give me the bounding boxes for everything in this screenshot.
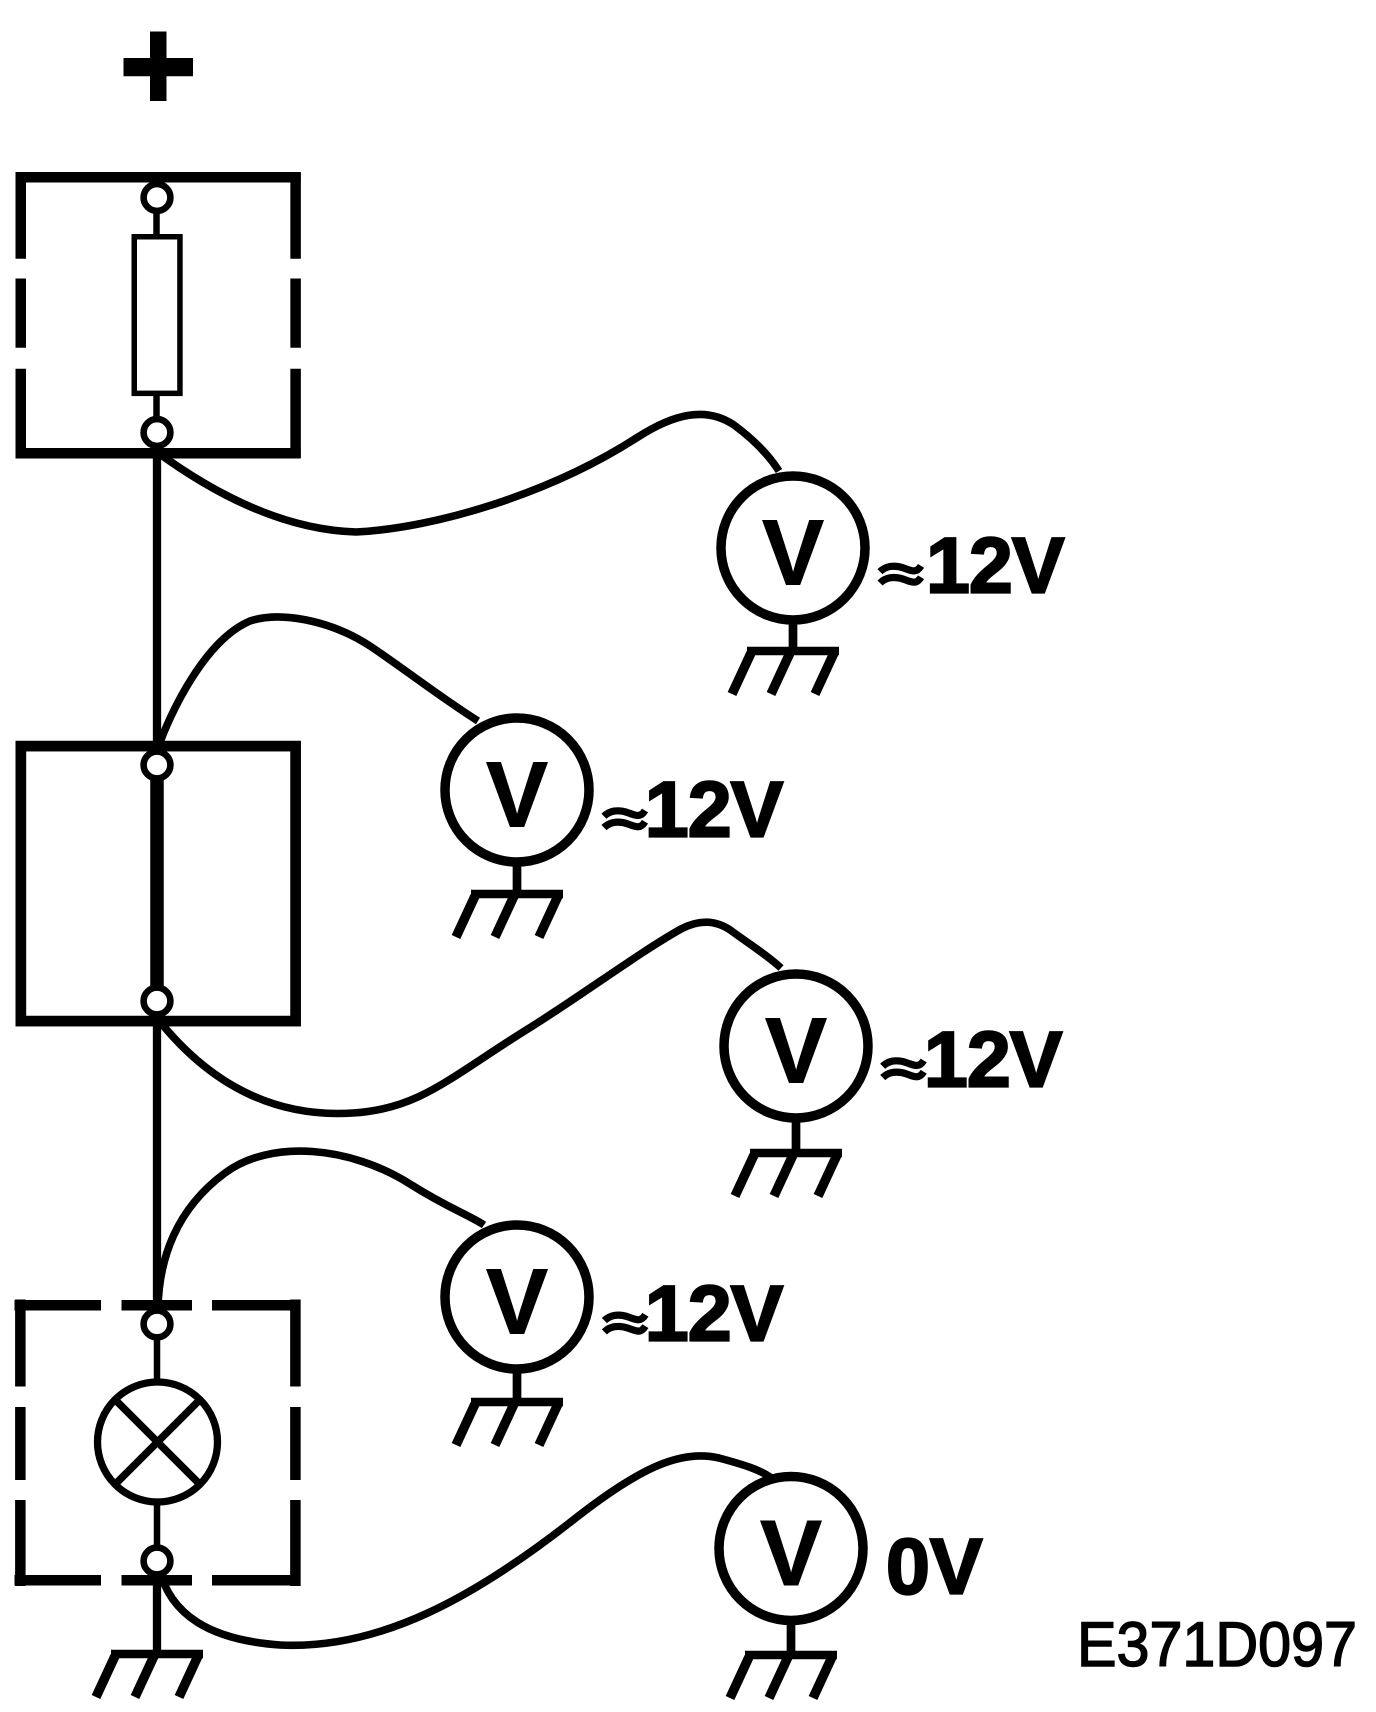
voltmeter V3	[724, 974, 868, 1118]
wire fuse bottom stub	[153, 393, 160, 418]
ground (voltmeter V1)	[732, 651, 839, 694]
svg-text:12V: 12V	[645, 1269, 784, 1358]
svg-text:E371D097: E371D097	[1077, 1610, 1357, 1680]
wire voltmeter V3 ground stem	[792, 1114, 801, 1153]
wire voltmeter V2 ground stem	[513, 858, 522, 894]
wire lamp top stub	[154, 1338, 161, 1385]
label approx 12V (V2)	[604, 764, 784, 853]
terminal fuse output (node to V1)	[144, 419, 171, 446]
label approx 12V (V4)	[604, 1269, 783, 1358]
fuse box (dashed component outline)	[16, 172, 301, 457]
wire voltmeter V1 ground stem	[789, 616, 798, 651]
wire test lead 2 (switch input node to voltmeter V2)	[158, 617, 478, 748]
label approx 12V (V1)	[880, 520, 1065, 609]
ground (voltmeter V5)	[730, 1655, 837, 1698]
terminal switch input (node to V2)	[144, 752, 171, 779]
svg-text:12V: 12V	[926, 520, 1065, 609]
voltmeter V2	[445, 718, 589, 862]
battery positive supply symbol (+)	[124, 32, 194, 102]
switch contact bar	[150, 765, 164, 1001]
ground (voltmeter V2)	[456, 894, 563, 937]
wire lamp bottom stub	[154, 1500, 161, 1548]
svg-text:V: V	[486, 1250, 548, 1354]
terminal lamp input (node to V4)	[144, 1311, 171, 1338]
fuse element F	[134, 237, 180, 394]
wire test lead 4 (lamp input node to voltmeter V4)	[158, 1151, 484, 1308]
switch box (solid component outline)	[21, 746, 296, 1021]
wire test lead 5 (lamp output node to voltmeter V5)	[159, 1456, 770, 1645]
wire lamp box output to ground	[153, 1574, 161, 1653]
voltmeter V4	[445, 1225, 589, 1369]
svg-text:V: V	[762, 501, 824, 605]
svg-text:0V: 0V	[886, 1522, 983, 1611]
wire fuse top stub	[153, 211, 160, 237]
terminal fuse input	[144, 184, 171, 211]
terminal lamp output (node to V5)	[144, 1548, 171, 1575]
wire main vertical feed (switch box to lamp box)	[153, 1014, 161, 1312]
lamp box (dashed component outline)	[15, 1300, 301, 1587]
svg-text:12V: 12V	[924, 1014, 1063, 1103]
ground (voltmeter V4)	[456, 1402, 563, 1445]
ground (voltmeter V3)	[735, 1153, 842, 1196]
svg-text:V: V	[765, 999, 827, 1103]
terminal switch output (node to V3)	[144, 988, 171, 1015]
wire test lead 1 (fuse output node to voltmeter V1)	[157, 414, 779, 532]
svg-text:12V: 12V	[645, 764, 784, 853]
lamp E (circle with cross)	[98, 1382, 218, 1502]
wire test lead 3 (switch output node to voltmeter V3)	[157, 922, 781, 1113]
voltmeter V1	[721, 476, 865, 620]
ground (below lamp box)	[96, 1654, 203, 1697]
voltmeter V5	[719, 1477, 863, 1621]
svg-text:V: V	[760, 1501, 822, 1605]
svg-text:V: V	[486, 743, 548, 847]
wire main vertical feed (fuse box to switch box)	[153, 446, 161, 752]
label approx 12V (V3)	[883, 1014, 1063, 1103]
wire voltmeter V4 ground stem	[513, 1365, 522, 1402]
wire voltmeter V5 ground stem	[787, 1616, 796, 1655]
